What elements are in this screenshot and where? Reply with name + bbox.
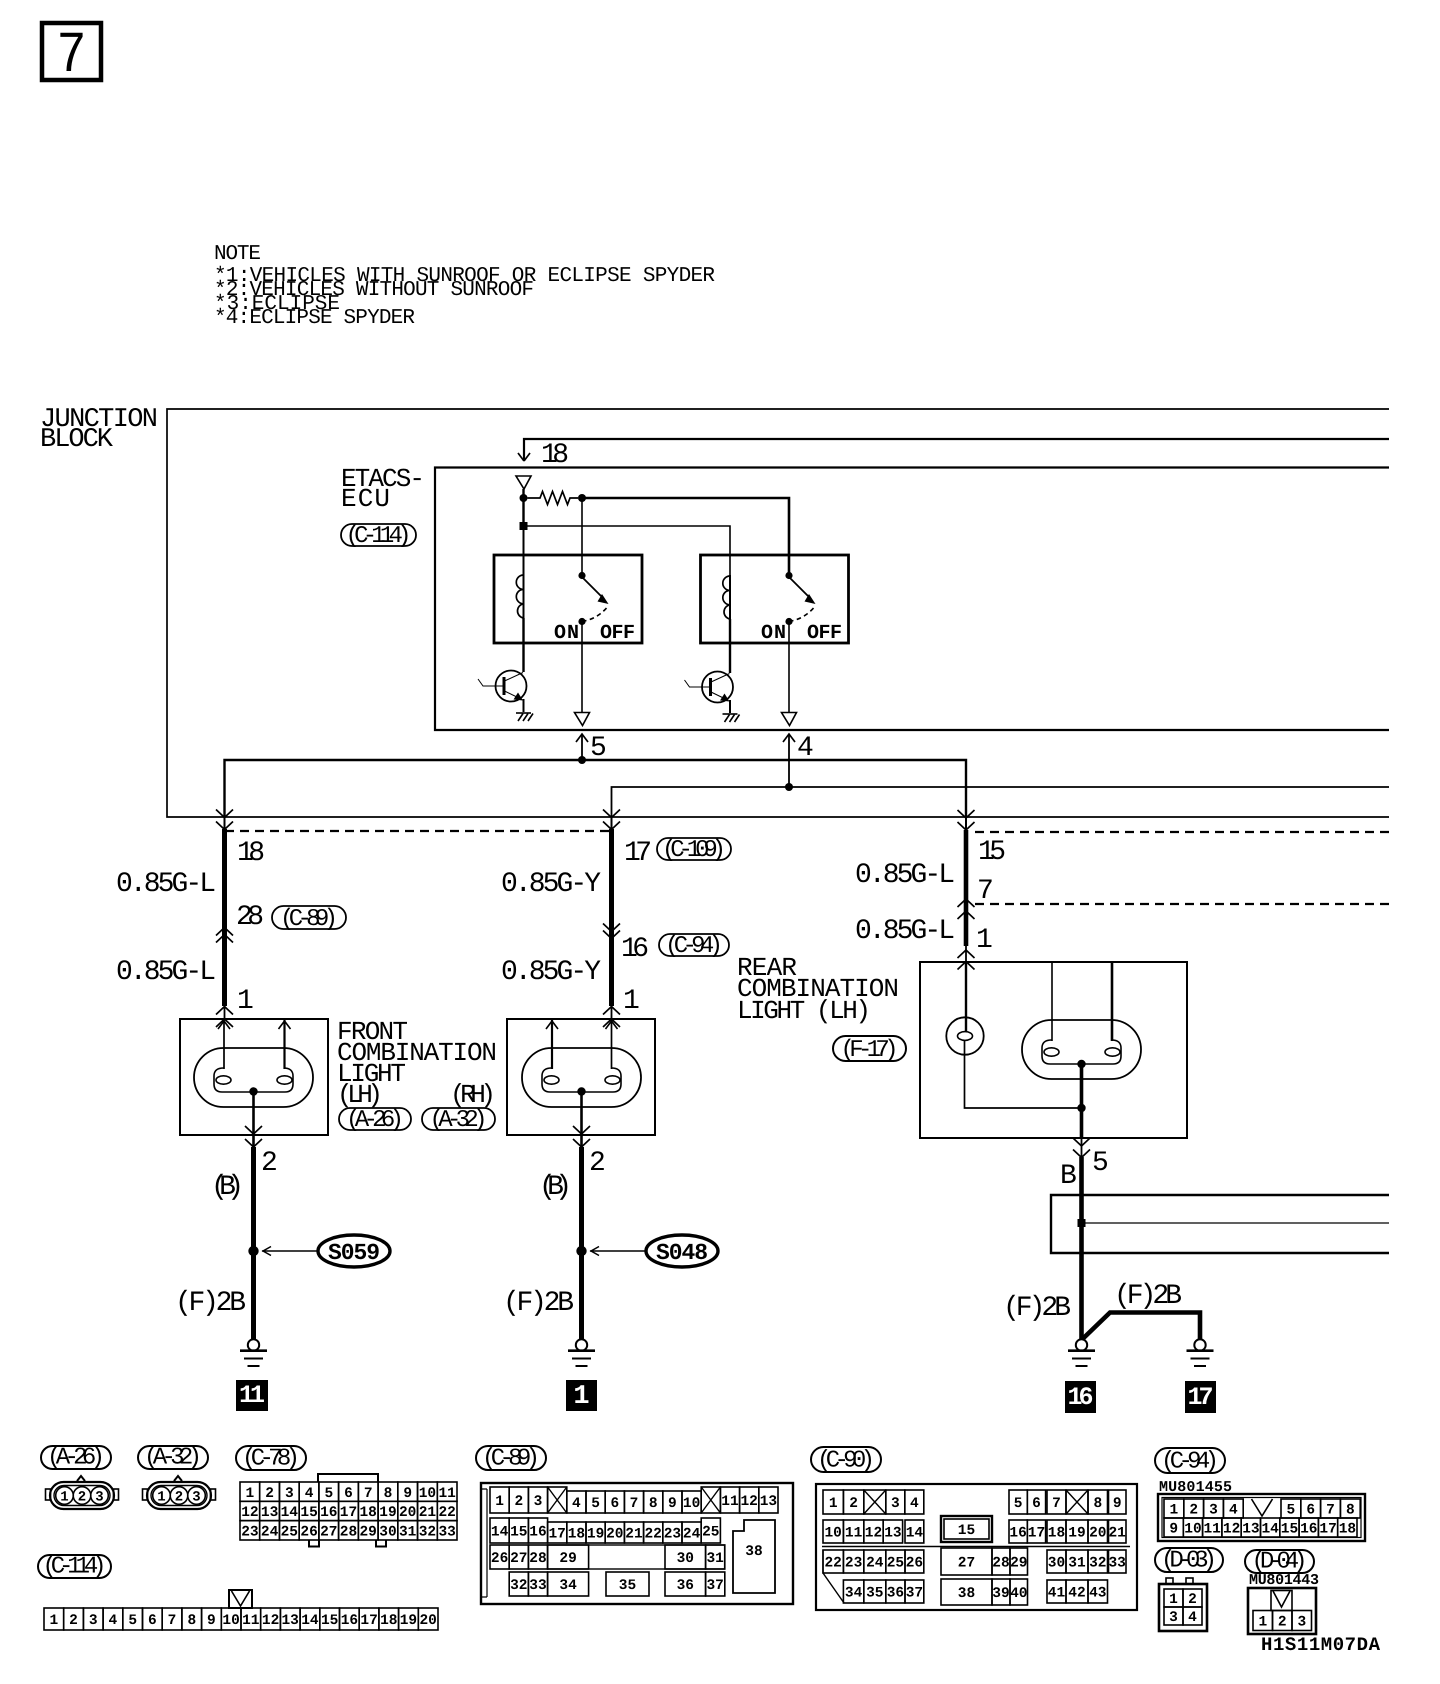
ETACS-ECU label [341,464,425,514]
svg-text:26: 26 [300,1525,317,1541]
svg-text:16: 16 [320,1505,337,1521]
svg-text:16: 16 [341,1613,358,1629]
node pin5 junction [578,756,586,764]
svg-text:0.85G-L: 0.85G-L [116,869,216,900]
svg-text:17: 17 [548,1527,565,1543]
connector A-26 label mid [339,1107,411,1134]
splice node S048 [576,1246,586,1256]
svg-text:21: 21 [1108,1526,1126,1542]
front LH bulb common node [249,1087,257,1095]
wire branch to relay K2 coil [524,526,731,576]
connector C-94 label [1155,1448,1225,1473]
rear small bulb [946,1017,983,1054]
svg-text:(A-26): (A-26) [47,1445,105,1472]
svg-text:12: 12 [241,1505,258,1521]
svg-text:4: 4 [1229,1503,1238,1519]
svg-text:14: 14 [281,1505,299,1521]
note text [214,243,715,330]
svg-text:31: 31 [1068,1556,1086,1572]
splice node S059 [248,1246,258,1256]
wire A C-89 chevrons [216,928,233,936]
relay K1 switch [554,572,635,645]
svg-text:32: 32 [1089,1556,1106,1572]
svg-text:16: 16 [1068,1383,1094,1412]
svg-text:OFF: OFF [600,622,635,645]
junction block label [40,405,158,455]
svg-text:22: 22 [824,1556,841,1572]
wire resistor to relay K2 switch [582,498,789,575]
svg-text:(F)2B: (F)2B [1003,1293,1071,1324]
svg-text:2: 2 [1189,1503,1198,1519]
svg-text:16: 16 [1009,1526,1026,1542]
svg-text:5: 5 [1014,1496,1023,1512]
wire B thin into lamp [611,1006,613,1019]
svg-text:38: 38 [958,1586,975,1602]
node [578,494,586,502]
svg-text:18: 18 [380,1613,397,1629]
wire K1 switch to pin 5 [581,622,583,713]
svg-text:2: 2 [261,1148,278,1179]
wire RH bulb to box exit [580,1092,583,1148]
front RH bulb posts [546,1019,618,1069]
svg-text:9: 9 [403,1486,412,1502]
svg-text:28: 28 [529,1551,546,1567]
svg-text:30: 30 [379,1525,396,1541]
svg-text:7: 7 [57,24,87,89]
connector boundary dashed C-109 left [225,830,611,832]
transistor Q2 [685,672,734,703]
svg-text:2: 2 [265,1486,274,1502]
svg-text:1: 1 [157,1490,165,1506]
connector A-32 label mid [422,1107,495,1134]
svg-text:(C-78): (C-78) [242,1446,300,1473]
svg-text:21: 21 [419,1505,437,1521]
connector A-26 label [41,1446,111,1469]
front light labels [337,1017,497,1110]
svg-text:4: 4 [305,1486,314,1502]
wire rear thick to ground [1079,1157,1084,1341]
ground G-LH [240,1339,267,1366]
wire branch to ground 17 [1082,1313,1201,1341]
svg-text:5: 5 [591,1496,600,1512]
svg-text:13: 13 [1242,1522,1259,1538]
svg-text:13: 13 [261,1505,278,1521]
wire LH exit chevrons [245,1126,262,1134]
wire K2 coil to transistor Q2 [729,619,731,673]
svg-text:1: 1 [623,986,640,1017]
svg-text:(C-114): (C-114) [346,523,412,550]
wire B thick [611,817,613,829]
svg-text:20: 20 [606,1527,623,1543]
svg-text:27: 27 [510,1551,527,1567]
node [520,494,528,502]
svg-text:29: 29 [359,1525,376,1541]
connector C-89 label [476,1446,546,1470]
wire rear bulb down [1080,1064,1084,1137]
svg-text:1: 1 [50,1613,59,1629]
wire 18 feed [518,439,1389,461]
svg-text:(C-90): (C-90) [817,1448,875,1475]
svg-text:NOTE: NOTE [214,243,261,266]
svg-text:24: 24 [261,1525,279,1541]
svg-text:MU801443: MU801443 [1249,1572,1319,1589]
wire pin 4 lead [783,733,814,787]
node pin4 junction [785,783,793,791]
svg-text:11: 11 [845,1526,863,1542]
node rear common [1077,1104,1085,1112]
svg-text:9: 9 [1169,1522,1178,1538]
svg-text:30: 30 [1048,1556,1065,1572]
svg-text:33: 33 [529,1578,546,1594]
svg-text:7: 7 [168,1613,177,1629]
wire A thin into lamp [224,1006,226,1019]
svg-text:8: 8 [1093,1496,1102,1512]
svg-text:3: 3 [95,1490,103,1506]
ground G17 [1187,1339,1214,1366]
connector C-94 drawing [1158,1494,1365,1541]
svg-text:10: 10 [419,1486,436,1502]
svg-text:1: 1 [829,1496,838,1512]
svg-text:2: 2 [589,1148,606,1179]
svg-text:10: 10 [683,1496,700,1512]
svg-text:16: 16 [529,1525,546,1541]
svg-text:37: 37 [906,1586,923,1602]
front combination light LH box [180,1019,328,1135]
svg-text:23: 23 [241,1525,258,1541]
svg-text:9: 9 [207,1613,216,1629]
svg-text:41: 41 [1048,1586,1066,1602]
ground tag 11 [236,1380,268,1411]
svg-text:12: 12 [1223,1522,1240,1538]
svg-text:3: 3 [1209,1503,1218,1519]
svg-text:(C-114): (C-114) [43,1554,107,1581]
svg-text:15: 15 [510,1525,527,1541]
resistor R1 [528,492,579,505]
ground internal Q2 [723,714,740,722]
svg-text:38: 38 [745,1544,762,1560]
relay K2 coil [723,575,730,620]
rear combination light label [737,953,899,1026]
ground tag 16 [1065,1381,1096,1413]
svg-text:16: 16 [1300,1522,1317,1538]
svg-text:36: 36 [887,1586,904,1602]
connector D-04 drawing [1248,1588,1316,1634]
svg-text:9: 9 [668,1496,677,1512]
svg-text:20: 20 [399,1505,416,1521]
relay K2 switch [761,572,842,645]
connector D-03 drawing [1166,1578,1173,1584]
svg-text:1: 1 [246,1486,255,1502]
svg-text:2: 2 [849,1496,858,1512]
svg-text:17: 17 [624,838,652,869]
wire C dashed crossing chevrons [958,899,975,907]
svg-text:(F)2B: (F)2B [175,1288,246,1319]
rear bulb posts [1052,962,1112,1041]
svg-text:4: 4 [910,1496,919,1512]
connector C-89 label mid [272,906,346,933]
svg-text:0.85G-L: 0.85G-L [855,860,955,891]
front combination light RH box [507,1019,655,1135]
svg-text:2: 2 [1188,1592,1197,1608]
svg-text:(F-17): (F-17) [841,1037,899,1064]
connector C-114 label [38,1555,111,1578]
connector C-114 drawing [229,1590,252,1608]
svg-text:3: 3 [285,1486,294,1502]
svg-text:OFF: OFF [807,622,842,645]
svg-text:17: 17 [1028,1526,1045,1542]
svg-text:0.85G-L: 0.85G-L [855,916,955,947]
svg-text:22: 22 [644,1527,661,1543]
svg-text:4: 4 [109,1613,118,1629]
svg-text:7: 7 [364,1486,373,1502]
page number box 7 [42,23,101,89]
svg-text:6: 6 [148,1613,157,1629]
svg-text:18: 18 [541,440,569,471]
splice S059 [262,1235,390,1267]
svg-text:2: 2 [1278,1615,1287,1631]
wire B C-94 chevrons [603,924,620,932]
svg-text:1: 1 [976,925,993,956]
svg-text:36: 36 [677,1578,694,1594]
svg-text:3: 3 [89,1613,98,1629]
svg-text:17: 17 [360,1613,377,1629]
svg-text:10: 10 [824,1526,841,1542]
ground G16 [1068,1339,1095,1366]
svg-text:35: 35 [619,1578,636,1594]
wire pin 5 lead [576,733,607,764]
svg-text:S048: S048 [656,1240,708,1266]
wire RH exit chevrons [573,1126,590,1134]
svg-text:17: 17 [1319,1522,1336,1538]
svg-text:7: 7 [977,876,994,907]
svg-text:1: 1 [573,1382,589,1412]
svg-text:7: 7 [1326,1503,1335,1519]
svg-text:13: 13 [281,1613,298,1629]
wire LH down to ground [251,1147,256,1340]
svg-text:8: 8 [384,1486,393,1502]
relay K1 box [494,555,642,643]
svg-text:14: 14 [301,1613,319,1629]
svg-text:(D-03): (D-03) [1161,1548,1217,1575]
svg-text:(B): (B) [539,1172,572,1203]
svg-text:29: 29 [559,1551,576,1567]
relay K2 box [701,555,849,643]
svg-text:(A-32): (A-32) [144,1445,202,1472]
svg-text:40: 40 [1010,1586,1027,1602]
svg-text:0.85G-Y: 0.85G-Y [501,869,601,900]
node (square) [520,522,528,530]
svg-text:19: 19 [1068,1526,1085,1542]
svg-text:20: 20 [1089,1526,1106,1542]
connector D-04 label [1245,1550,1314,1573]
svg-text:(C-109): (C-109) [662,837,726,864]
svg-text:10: 10 [222,1613,239,1629]
wire pin18 to node [522,489,524,498]
svg-text:10: 10 [1184,1522,1201,1538]
ground internal Q1 [516,713,533,721]
svg-text:15: 15 [1281,1522,1298,1538]
wire node to relay K1 switch [581,498,583,575]
svg-text:H1S11M07DA: H1S11M07DA [1261,1634,1381,1656]
svg-text:24: 24 [683,1527,701,1543]
wire rear exit chevrons [1073,1138,1090,1146]
svg-text:27: 27 [958,1556,975,1572]
svg-text:15: 15 [300,1505,317,1521]
svg-text:28: 28 [340,1525,357,1541]
svg-text:(F)2B: (F)2B [503,1288,574,1319]
svg-text:4: 4 [1188,1610,1197,1626]
svg-text:33: 33 [1108,1556,1125,1572]
svg-text:14: 14 [906,1526,924,1542]
svg-text:11: 11 [721,1494,739,1510]
wire B lamp entry chevrons [603,1007,620,1015]
svg-text:25: 25 [887,1556,904,1572]
svg-text:2: 2 [69,1613,78,1629]
rear big bulb [1022,1020,1141,1079]
svg-text:3: 3 [534,1494,543,1510]
svg-text:24: 24 [866,1556,884,1572]
svg-text:37: 37 [706,1578,723,1594]
front LH bulb posts [218,1019,291,1069]
svg-text:18: 18 [359,1505,376,1521]
svg-text:18: 18 [568,1527,585,1543]
ETACS-ECU box [435,468,1389,731]
svg-text:28: 28 [236,902,264,933]
svg-text:11: 11 [438,1486,456,1502]
svg-text:35: 35 [866,1586,883,1602]
svg-text:1: 1 [495,1494,504,1510]
wire B chevrons at junction block exit [603,810,620,818]
svg-text:B: B [1060,1161,1077,1192]
wire Q2 emitter to ground [729,700,731,713]
ground tag 17 [1185,1381,1216,1413]
svg-text:25: 25 [702,1525,719,1541]
rear combination light box [920,962,1187,1138]
svg-text:(C-89): (C-89) [280,906,338,933]
splice S048 [590,1235,718,1267]
svg-text:39: 39 [992,1586,1009,1602]
svg-text:0.85G-L: 0.85G-L [116,957,216,988]
svg-text:43: 43 [1089,1586,1106,1602]
wire to relay K1 coil [523,526,525,576]
svg-text:19: 19 [587,1527,604,1543]
wire K2 switch to pin 4 [788,622,790,713]
svg-text:16: 16 [621,934,649,965]
svg-text:(C-94): (C-94) [665,933,723,960]
svg-text:3: 3 [192,1490,200,1506]
svg-text:2: 2 [78,1490,86,1506]
wire LH bulb to box exit [252,1092,255,1148]
connector C-94 label mid [659,933,729,960]
front RH bulb common node [577,1087,585,1095]
ground G-RH [568,1339,595,1366]
svg-text:13: 13 [760,1494,777,1510]
svg-text:8: 8 [187,1613,196,1629]
svg-text:1: 1 [1169,1592,1178,1608]
svg-text:34: 34 [845,1586,863,1602]
svg-text:29: 29 [1010,1556,1027,1572]
svg-text:(F)2B: (F)2B [1114,1281,1182,1312]
pin 18 [516,476,531,489]
rear bulb common node [1077,1060,1085,1068]
svg-text:4: 4 [572,1496,581,1512]
svg-text:ECU: ECU [341,484,390,514]
svg-text:28: 28 [992,1556,1009,1572]
svg-text:*4:ECLIPSE SPYDER: *4:ECLIPSE SPYDER [214,307,415,330]
svg-text:6: 6 [1306,1503,1315,1519]
svg-text:6: 6 [610,1496,619,1512]
svg-text:33: 33 [438,1525,455,1541]
svg-text:(A-32): (A-32) [430,1107,488,1134]
connector C-90 label [811,1447,881,1472]
wire C chevrons at junction block exit [958,810,975,818]
transistor Q1 [478,671,527,702]
svg-text:3: 3 [891,1496,900,1512]
svg-text:13: 13 [884,1526,901,1542]
svg-text:5: 5 [324,1486,333,1502]
svg-text:19: 19 [379,1505,396,1521]
svg-text:18: 18 [1339,1522,1356,1538]
junction block box [167,409,1389,817]
connector D-03 label [1155,1548,1223,1572]
svg-text:11: 11 [239,1381,265,1410]
node harness junction [1078,1219,1086,1227]
svg-text:17: 17 [340,1505,357,1521]
svg-text:(C-89): (C-89) [482,1446,540,1473]
wire bus upper [225,760,967,818]
wire node down to coil branch [522,498,524,530]
svg-text:7: 7 [630,1496,639,1512]
svg-text:0.85G-Y: 0.85G-Y [501,957,601,988]
svg-text:6: 6 [1032,1496,1041,1512]
wire C thick [965,818,967,830]
svg-text:8: 8 [649,1496,658,1512]
svg-text:14: 14 [491,1525,509,1541]
svg-text:(C-94): (C-94) [1161,1449,1219,1476]
pin 5 [575,713,590,726]
wire Q1 emitter to ground [523,699,525,712]
svg-text:1: 1 [60,1490,68,1506]
svg-text:20: 20 [419,1613,436,1629]
svg-text:(LH): (LH) [337,1080,383,1110]
svg-text:6: 6 [344,1486,353,1502]
connector boundary dashed right upper [975,831,1389,833]
svg-text:19: 19 [400,1613,417,1629]
svg-text:23: 23 [845,1556,862,1572]
svg-text:2: 2 [514,1494,523,1510]
svg-text:1: 1 [237,986,254,1017]
svg-text:(RH): (RH) [450,1080,496,1110]
wire A lamp entry chevrons [216,1007,233,1015]
svg-text:26: 26 [906,1556,923,1572]
connector F-17 label [833,1036,906,1064]
connector C-90 drawing [816,1484,1137,1610]
connector C-109 label [657,837,731,864]
svg-text:S059: S059 [328,1240,380,1266]
connector C-78 drawing [318,1474,378,1482]
svg-text:31: 31 [706,1551,724,1567]
svg-text:26: 26 [491,1551,508,1567]
wire C inside box to small bulb [965,962,967,1032]
svg-text:12: 12 [740,1494,757,1510]
svg-text:11: 11 [1203,1522,1221,1538]
connector C-114 label [341,523,416,550]
svg-text:12: 12 [865,1526,882,1542]
svg-text:23: 23 [664,1527,681,1543]
svg-text:17: 17 [1188,1383,1214,1412]
svg-text:ON: ON [554,622,579,645]
svg-text:3: 3 [1297,1615,1306,1631]
